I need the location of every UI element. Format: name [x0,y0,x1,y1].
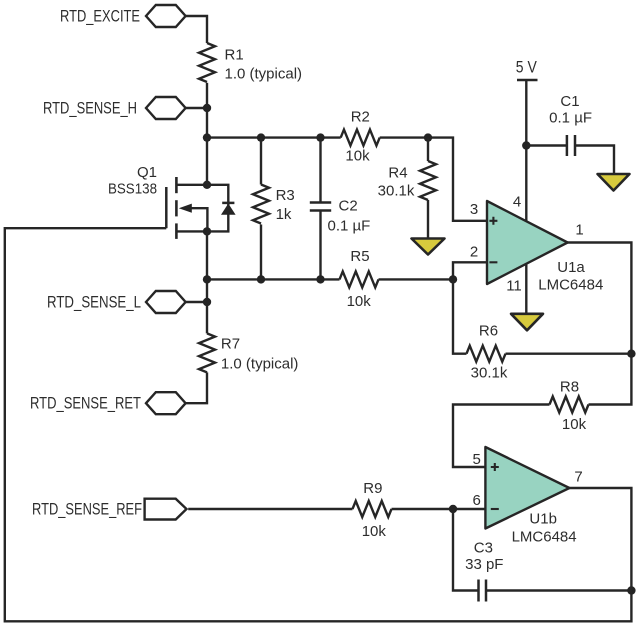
svg-text:4: 4 [513,194,521,211]
wire U1a pin 11 to ground [525,264,527,314]
power 5V [516,59,538,81]
svg-text:R4: R4 [388,165,407,182]
junction 5V/C1 [522,141,530,149]
svg-text:R6: R6 [479,323,498,340]
svg-text:R2: R2 [351,109,370,126]
svg-text:Q1: Q1 [137,164,157,181]
svg-text:C3: C3 [474,540,493,557]
svg-text:10k: 10k [347,293,372,310]
svg-text:U1b: U1b [529,511,557,528]
node RTD_SENSE_L [47,291,186,313]
junction C3/output [627,586,635,594]
svg-text:RTD_EXCITE: RTD_EXCITE [60,8,140,26]
svg-text:0.1 µF: 0.1 µF [328,218,371,235]
svg-text:30.1k: 30.1k [471,365,508,382]
wire R8 to U1b pin 5 [453,405,550,468]
wire 5V to C1 [526,144,567,146]
junction SENSE_H [203,104,211,112]
ground below R4 [412,239,445,255]
wire RTD_EXCITE to R1 [186,16,207,43]
svg-text:RTD_SENSE_H: RTD_SENSE_H [43,100,137,118]
wire R3 top lead [260,138,262,185]
svg-text:U1a: U1a [557,259,585,276]
transistor Q1 [108,164,207,239]
wire top bus horizontal [207,136,341,138]
svg-text:R5: R5 [350,248,369,265]
wire R9 to U1b pin 6 [392,508,486,510]
resistor R1 [199,43,302,83]
wire R6 to output node [506,353,632,355]
wire 5V stem to U1a pin 4 [525,80,527,221]
svg-text:7: 7 [574,469,582,486]
junction R9/pin6/C3 [449,505,457,513]
wire RTD_SENSE_H to bus [186,107,207,109]
junction C2 bottom [316,275,324,283]
resistor R5 [340,248,379,310]
wire pin2 node down to R6 [453,279,467,353]
junction Q1 drain [203,181,211,189]
junction C2 top [316,133,324,141]
junction Q1 source [203,227,211,235]
wire pin6 node down to C3 [453,509,479,591]
svg-text:C1: C1 [560,93,579,110]
junction SENSE_L [203,298,211,306]
svg-text:3: 3 [470,201,478,218]
svg-text:1.0 (typical): 1.0 (typical) [221,356,299,373]
svg-text:10k: 10k [362,523,387,540]
svg-text:0.1 µF: 0.1 µF [549,110,592,127]
wire R4 bottom lead [427,200,429,239]
wire bus source down to SENSE_L [206,231,208,333]
junction R3 bottom [257,275,265,283]
capacitor C3 [465,540,503,602]
resistor R8 [550,379,589,434]
wire C3 to output node [486,589,631,591]
node RTD_SENSE_H [43,97,186,119]
wire R2 to R4 and op-amp pin 3 [380,138,487,221]
wire C1 to ground [575,146,614,175]
op-amp U1b [485,447,576,546]
resistor R7 [199,333,298,372]
wire body-diode branch [207,185,228,232]
svg-text:1: 1 [575,222,583,239]
wire R4 top lead [427,138,429,161]
svg-text:5: 5 [473,451,481,468]
svg-text:1k: 1k [276,206,292,223]
svg-text:R9: R9 [363,480,382,497]
capacitor C1 [549,93,592,156]
wire R1 bottom to bus [206,83,208,138]
wire RTD_SENSE_L to bus [186,301,207,303]
resistor R6 [467,323,508,382]
wire U1b output feedback loop to Q1 gate [5,228,632,621]
svg-text:30.1k: 30.1k [378,183,415,200]
wire RTD_SENSE_REF to R9 [188,508,352,510]
svg-text:C2: C2 [339,198,358,215]
node RTD_SENSE_RET [30,392,186,414]
junction mid tee [203,275,211,283]
junction R5/pin2/R6 [449,275,457,283]
wire R5 to pin 2 [379,262,488,279]
diode D1 body [221,203,236,215]
wire R7 bottom to RTD_SENSE_RET [186,372,207,403]
node RTD_SENSE_REF [32,499,187,520]
ground U1a [511,314,543,331]
svg-text:10k: 10k [562,416,587,433]
wire mid bus horizontal [207,278,340,280]
capacitor C2 [310,198,371,235]
svg-text:R3: R3 [276,187,295,204]
svg-text:RTD_SENSE_REF: RTD_SENSE_REF [32,501,142,519]
svg-text:RTD_SENSE_L: RTD_SENSE_L [47,294,141,312]
ground C1 [598,174,630,191]
wire C2 bottom lead [319,211,321,280]
resistor R2 [341,109,380,165]
junction R2/R4 [424,133,432,141]
junction bus tee [203,133,211,141]
svg-text:5 V: 5 V [516,59,537,77]
svg-text:R1: R1 [225,47,244,64]
resistor R4 [378,161,436,200]
svg-text:R7: R7 [221,336,240,353]
svg-text:2: 2 [470,244,478,261]
svg-text:RTD_SENSE_RET: RTD_SENSE_RET [30,395,141,413]
op-amp U1a [487,201,603,293]
svg-text:6: 6 [473,492,481,509]
svg-text:11: 11 [506,278,522,295]
wire R3 bottom lead [260,225,262,280]
svg-text:LMC6484: LMC6484 [512,529,577,546]
resistor R3 [253,185,295,224]
wire bus drain to source [206,138,208,185]
svg-text:10k: 10k [345,148,370,165]
svg-text:R8: R8 [560,379,579,396]
node RTD_EXCITE [60,5,186,27]
wire C2 top lead [319,138,321,203]
junction R3 top [257,133,265,141]
junction R6/output [627,350,635,358]
wire U1a output to R8 [568,243,632,405]
svg-text:1.0 (typical): 1.0 (typical) [225,66,303,83]
svg-text:BSS138: BSS138 [108,181,157,198]
svg-text:33 pF: 33 pF [465,556,503,573]
resistor R9 [353,480,392,540]
svg-text:LMC6484: LMC6484 [538,276,603,293]
